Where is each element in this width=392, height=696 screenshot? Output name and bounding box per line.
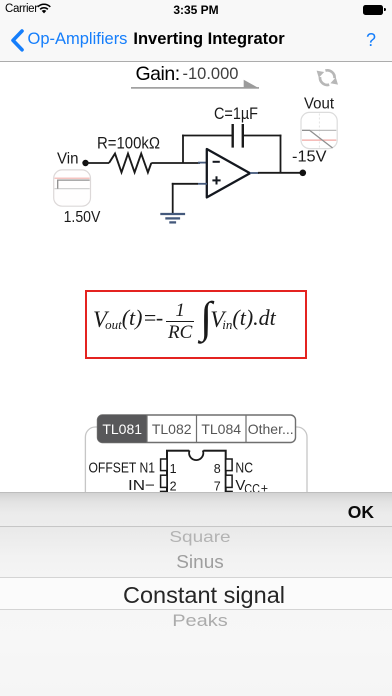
segment TL081 selected [98, 415, 148, 443]
status: wifi icon [36, 3, 52, 14]
pin 1 [161, 459, 167, 471]
svg-text:R=100kΩ: R=100kΩ [97, 135, 160, 153]
node Vout junction dot [300, 170, 307, 177]
wire stub inverting input [198, 162, 207, 164]
picker row Peaks [4, 614, 392, 628]
chip section svg [0, 405, 392, 493]
refresh icon [320, 70, 335, 85]
OK button [0, 502, 374, 523]
nav: back chevron [10, 29, 24, 52]
picker overlay toolbar [0, 492, 392, 527]
nav: title [0, 30, 392, 49]
wire output corner vertical [280, 135, 282, 173]
picker row Constant signal (selected) [8, 580, 392, 610]
nav: back label [28, 30, 128, 49]
pin 2 [161, 475, 167, 487]
wire stub non-inverting input [198, 183, 207, 185]
picker row Square [4, 531, 392, 544]
capacitor C1 plate right [242, 124, 244, 148]
wire to ground [172, 183, 174, 214]
wire feedback vertical from node [182, 135, 184, 163]
svg-text:Other...: Other... [248, 421, 294, 437]
svg-text:Vout: Vout [304, 96, 335, 113]
segment separators [146, 415, 148, 443]
svg-text:TL084: TL084 [201, 421, 241, 437]
svg-text:8: 8 [214, 462, 221, 476]
circuit svg layer [0, 0, 392, 240]
svg-text:TL081: TL081 [102, 421, 142, 437]
pin 3 (clipped) [161, 491, 167, 495]
chip U1 DIP-8 body [167, 451, 226, 506]
gain resize grip triangle [244, 80, 259, 88]
wire output [258, 172, 302, 174]
pin 7 [226, 475, 232, 487]
pin 8 [226, 459, 232, 471]
wire Vin to resistor [86, 162, 110, 164]
gain label [136, 63, 180, 86]
status: battery [363, 5, 383, 15]
probe Vout waveform icon [301, 112, 337, 148]
chip notch [189, 449, 203, 452]
svg-text:OFFSET N1: OFFSET N1 [89, 460, 156, 476]
gain underline [131, 87, 259, 88]
chip container card [85, 427, 307, 517]
wire resistor to inverting input [151, 162, 200, 164]
resistor R=100kΩ [109, 154, 151, 173]
svg-text:1.50V: 1.50V [64, 209, 101, 226]
gain value [183, 65, 239, 84]
svg-text:2: 2 [170, 480, 177, 493]
picker wheel background [0, 527, 392, 696]
svg-text:C=1µF: C=1µF [214, 105, 258, 123]
node Vin junction dot [82, 160, 88, 166]
svg-text:NC: NC [235, 459, 253, 476]
source Vin waveform icon [54, 170, 91, 206]
picker row separators [0, 577, 392, 579]
nav: help button [366, 30, 376, 51]
pin 6 (clipped) [226, 491, 232, 495]
svg-text:IN−: IN− [128, 478, 155, 493]
status: Carrier [5, 3, 38, 15]
status: time [120, 3, 272, 17]
wire stub op-amp output [250, 172, 259, 174]
capacitor C1 plate left [231, 124, 233, 148]
segmented control background [98, 415, 296, 443]
wire feedback to capacitor [182, 135, 232, 137]
wire capacitor to output corner [244, 135, 281, 137]
op-amp non-inverting input plus sign [212, 179, 220, 181]
op-amp U1 triangle [207, 149, 250, 197]
svg-text:TL082: TL082 [152, 421, 192, 437]
svg-text:-15V: -15V [292, 148, 327, 165]
svg-text:1: 1 [170, 462, 177, 476]
wire non-inverting input [172, 183, 198, 185]
ground [160, 214, 185, 222]
formula text [88, 292, 303, 354]
formula red box [85, 290, 307, 359]
picker selected row highlight [0, 578, 392, 609]
op-amp inverting input minus sign [213, 161, 220, 163]
status + nav bar background [0, 0, 392, 62]
svg-text:7: 7 [214, 480, 221, 493]
picker row Sinus [4, 554, 392, 570]
svg-text:Vin: Vin [57, 151, 79, 168]
